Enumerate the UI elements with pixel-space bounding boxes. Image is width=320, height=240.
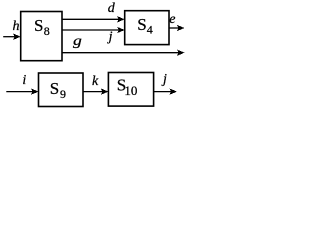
box S4 xyxy=(125,11,169,45)
wire d from S8 to S4 xyxy=(62,16,125,22)
svg-text:9: 9 xyxy=(60,87,66,101)
wire e out of S4 xyxy=(169,25,185,31)
svg-text:10: 10 xyxy=(124,83,137,98)
wire h arrow into S8 xyxy=(3,34,21,40)
svg-text:S: S xyxy=(34,16,43,35)
wire j out of S10 xyxy=(154,88,177,94)
box S9 xyxy=(39,73,84,107)
box S10 xyxy=(108,73,153,107)
svg-text:d: d xyxy=(108,1,116,16)
svg-text:4: 4 xyxy=(147,23,153,37)
svg-text:e: e xyxy=(169,12,175,27)
wire j from S8 to S4 xyxy=(62,27,125,33)
box S8 xyxy=(21,12,62,61)
svg-text:8: 8 xyxy=(44,24,50,38)
wire i arrow into S9 xyxy=(6,88,38,94)
svg-text:S: S xyxy=(137,15,146,34)
svg-text:g: g xyxy=(73,34,82,49)
svg-text:i: i xyxy=(22,73,26,88)
svg-text:h: h xyxy=(13,19,20,34)
wire g from S8 to right edge xyxy=(62,50,185,56)
svg-text:S: S xyxy=(50,79,59,98)
wire k from S9 to S10 xyxy=(83,88,108,94)
svg-text:k: k xyxy=(92,74,99,89)
